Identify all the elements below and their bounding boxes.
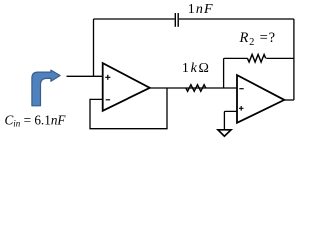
wire top run capacitor to right vertical	[179, 18, 294, 20]
wire R2 right to output vertical	[266, 57, 294, 59]
U1 minus label	[106, 99, 110, 101]
U2 minus label	[239, 88, 243, 90]
wire U2 output	[284, 99, 294, 101]
wire top feedback (left vertical + top run to capacitor)	[94, 19, 175, 76]
svg-text:Cin = 6.1nF: Cin = 6.1nF	[5, 112, 67, 128]
svg-text:R2 =?: R2 =?	[239, 30, 276, 48]
wire input to op-amp U1 +	[67, 75, 103, 77]
wire U1 output run to U2 inverting input	[150, 87, 237, 89]
svg-text:1kΩ: 1kΩ	[182, 61, 211, 76]
wire U2 + input to ground	[224, 111, 237, 129]
wire feedback loop U1 output to inverting input	[90, 88, 167, 129]
capacitor C1 1nF plates	[175, 13, 178, 27]
wire branch up to R2	[224, 58, 248, 88]
op-amp U2	[237, 75, 284, 123]
U2 plus label	[239, 106, 244, 111]
wire right vertical (top wire to U2 output)	[293, 19, 295, 100]
resistor R2 zigzag	[247, 55, 265, 63]
op-amp U1	[103, 63, 150, 111]
U1 plus label	[105, 75, 110, 80]
svg-text:1nF: 1nF	[188, 2, 214, 17]
ground	[218, 130, 231, 136]
resistor R1 1kohm zigzag	[186, 85, 206, 92]
input arrow (blue bent arrow)	[32, 70, 60, 106]
